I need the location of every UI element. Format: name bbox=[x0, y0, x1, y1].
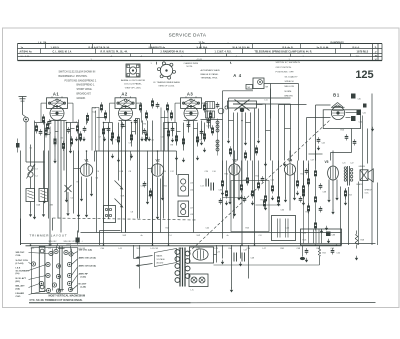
title SERVICE DATA bbox=[169, 33, 207, 38]
trimmer leader lines bbox=[29, 244, 78, 295]
svg-text:S.W: S.W bbox=[123, 235, 127, 237]
svg-text:15.2a: 15.2a bbox=[199, 41, 206, 44]
svg-text:L: L bbox=[375, 45, 377, 49]
svg-text:AERIAL & OSCILLATOR: AERIAL & OSCILLATOR bbox=[121, 79, 145, 82]
stage A4 label bbox=[233, 73, 242, 78]
mains adjust panel bbox=[155, 249, 177, 267]
svg-text:R10: R10 bbox=[225, 174, 228, 176]
IF stage A1 (tube + coil box) bbox=[41, 92, 73, 123]
svg-text:R28: R28 bbox=[361, 240, 364, 242]
svg-text:S.OSC COIL: S.OSC COIL bbox=[16, 260, 29, 262]
svg-text:L41.C45: L41.C45 bbox=[151, 248, 159, 250]
table right col dividers bbox=[18, 44, 383, 61]
V2 wires bbox=[148, 151, 163, 246]
left col grounds bbox=[29, 212, 45, 217]
bus labels bbox=[31, 248, 336, 250]
svg-text:BC AVT: BC AVT bbox=[79, 283, 88, 286]
link A2-A3 bbox=[161, 108, 169, 151]
aerial symbol bbox=[19, 97, 27, 104]
mains drop wires bbox=[134, 245, 140, 289]
V1 wires bbox=[74, 151, 92, 233]
svg-text:SW OSC CPS: SW OSC CPS bbox=[64, 241, 77, 243]
stage A2 ground arrows bbox=[111, 137, 151, 163]
stage A3 lower components bbox=[166, 102, 219, 146]
svg-text:C8: C8 bbox=[131, 212, 133, 214]
svg-text:C2: C2 bbox=[71, 198, 73, 200]
note switch S7 and S5 duality bbox=[276, 62, 301, 98]
V2 left cap C16 bbox=[143, 181, 152, 198]
coil lug panel symbol bbox=[126, 64, 140, 77]
svg-text:SHORT WAVE.: SHORT WAVE. bbox=[77, 88, 93, 91]
stage A1 drop wires bbox=[35, 118, 87, 246]
trimmer right labels bbox=[79, 249, 97, 289]
svg-text:R12: R12 bbox=[256, 176, 259, 178]
box right of V4 bbox=[272, 216, 296, 241]
A4 loop return tops bbox=[233, 103, 307, 106]
svg-text:L22: L22 bbox=[351, 163, 354, 165]
cap C49 labels bbox=[191, 250, 254, 292]
svg-text:POSITIONS : OFF.: POSITIONS : OFF. bbox=[276, 72, 295, 74]
electrolytic C55 bbox=[76, 231, 84, 245]
IF transformer box L17 L18 bbox=[178, 201, 193, 217]
svg-text:C38: C38 bbox=[323, 192, 326, 194]
chassis arrows row A1 bbox=[75, 137, 113, 142]
link A3-A4 bbox=[201, 119, 223, 121]
svg-text:R11: R11 bbox=[164, 186, 167, 188]
V3 V4 area top wires bbox=[223, 161, 309, 195]
svg-text:C20: C20 bbox=[205, 171, 208, 173]
svg-text:AER3 CHG (E14): AER3 CHG (E14) bbox=[79, 265, 97, 268]
svg-text:TELE/GRAM M. SPRING BASE CLAMP: TELE/GRAM M. SPRING BASE CLAMP 15/R.W. 4… bbox=[255, 51, 313, 54]
coupling labels row bbox=[97, 170, 216, 173]
svg-text:TRIMMER LAYOUT: TRIMMER LAYOUT bbox=[30, 234, 68, 238]
bottom caption 2 bbox=[30, 299, 83, 302]
cap C1 left margin bbox=[16, 139, 20, 153]
A4 zone blobs bbox=[229, 145, 258, 160]
svg-text:I.F. TRANSFORMER BASE: I.F. TRANSFORMER BASE bbox=[153, 81, 180, 84]
svg-text:(L7+L8): (L7+L8) bbox=[16, 263, 24, 265]
svg-text:SW OSC: SW OSC bbox=[49, 241, 58, 243]
A4 heptode structure bbox=[228, 100, 263, 113]
svg-text:C41: C41 bbox=[363, 113, 366, 115]
svg-text:C40: C40 bbox=[358, 99, 361, 101]
rectifier wires bbox=[214, 245, 249, 289]
table rule 4 bbox=[18, 56, 383, 58]
switch box S2 bbox=[104, 206, 116, 223]
svg-text:SPEECH: SPEECH bbox=[285, 81, 294, 83]
svg-text:MELLOW: MELLOW bbox=[285, 86, 295, 88]
V3 wires bbox=[230, 151, 239, 213]
svg-text:C4: C4 bbox=[75, 122, 77, 124]
svg-text:R23: R23 bbox=[246, 228, 249, 230]
svg-text:TERMINAL PINS.: TERMINAL PINS. bbox=[201, 77, 219, 80]
grid box top V1 V2 bbox=[95, 151, 177, 175]
table row3 text bbox=[21, 55, 360, 58]
svg-text:C6: C6 bbox=[97, 171, 99, 173]
right resistor stack bbox=[314, 168, 322, 230]
svg-text:S.W.: S.W. bbox=[121, 196, 125, 198]
svg-text:A1: A1 bbox=[53, 92, 60, 97]
power resistor R26 bbox=[318, 246, 326, 265]
svg-text:R2: R2 bbox=[61, 138, 63, 140]
svg-text:L18: L18 bbox=[190, 214, 193, 216]
svg-text:A/T/544. 4a: A/T/544. 4a bbox=[20, 51, 33, 54]
svg-text:BEL AVT: BEL AVT bbox=[16, 285, 26, 288]
svg-text:COIL LUG PANEL.: COIL LUG PANEL. bbox=[124, 83, 143, 86]
svg-text:R6: R6 bbox=[144, 124, 146, 126]
IF transformer box L13 L14 bbox=[178, 175, 193, 197]
rectifier grounds bbox=[221, 260, 242, 293]
aerial down wire bbox=[21, 122, 45, 245]
svg-text:S. 44. W.A.: S. 44. W.A. bbox=[197, 46, 208, 49]
B1 right rail bbox=[363, 94, 373, 246]
loop band arrows bbox=[264, 162, 286, 207]
svg-text:SWITCH S7, SHOWN IN: SWITCH S7, SHOWN IN bbox=[276, 62, 301, 64]
svg-text:R9: R9 bbox=[200, 140, 202, 142]
bus link verticals bbox=[21, 218, 53, 245]
svg-text:L12: L12 bbox=[171, 171, 174, 173]
svg-text:A3: A3 bbox=[187, 92, 194, 97]
B1 tube bbox=[331, 106, 344, 119]
V1 trimmer X bbox=[65, 185, 72, 216]
output pentode V5 bbox=[325, 160, 339, 180]
svg-text:COIL: COIL bbox=[365, 192, 369, 194]
svg-text:A2: A2 bbox=[121, 92, 128, 97]
svg-text:(2x): (2x) bbox=[16, 273, 20, 275]
svg-text:L11: L11 bbox=[265, 100, 268, 102]
svg-text:SERVICE DATA: SERVICE DATA bbox=[169, 33, 207, 38]
V3 V4 ground arrows bbox=[221, 191, 305, 211]
svg-text:(L6): (L6) bbox=[49, 244, 53, 246]
svg-text:R18: R18 bbox=[261, 200, 264, 202]
pentode V3 bbox=[229, 158, 240, 175]
V5 wires bbox=[329, 151, 337, 211]
svg-text:C9: C9 bbox=[129, 143, 131, 145]
svg-text:C.4: C.4 bbox=[169, 235, 172, 237]
dashed chassis line horizontal bbox=[53, 218, 197, 220]
svg-text:L23: L23 bbox=[217, 252, 220, 254]
V3 V4 area components bbox=[219, 168, 310, 204]
IF transformer base symbol bbox=[158, 62, 176, 79]
coil L3 L4 bbox=[27, 164, 38, 179]
table row1 text bbox=[21, 46, 360, 49]
B1 coil roof bbox=[331, 103, 345, 108]
svg-text:C17: C17 bbox=[207, 126, 210, 128]
svg-text:SW OSC (L4): SW OSC (L4) bbox=[79, 249, 93, 252]
table bottom rule bbox=[18, 60, 383, 62]
svg-text:3a. R. H. 44.: 3a. R. H. 44. bbox=[317, 46, 330, 49]
svg-text:C30: C30 bbox=[359, 122, 362, 124]
svg-text:BANDPASS: BANDPASS bbox=[331, 41, 345, 44]
svg-text:C8: C8 bbox=[129, 171, 131, 173]
stage A1 tie wires bbox=[35, 121, 79, 135]
stage A3 ground arrows bbox=[171, 138, 206, 163]
svg-text:L9: L9 bbox=[215, 108, 217, 110]
svg-text:C16: C16 bbox=[141, 186, 144, 188]
svg-text:125: 125 bbox=[355, 69, 373, 81]
speaker labels bbox=[357, 166, 373, 194]
secondary bus bbox=[81, 232, 342, 234]
svg-text:L21: L21 bbox=[343, 163, 346, 165]
svg-text:C15: C15 bbox=[187, 122, 190, 124]
right col extra wires bbox=[302, 161, 328, 244]
V3 grounds bbox=[228, 196, 240, 217]
A4 feedback loop inner bbox=[233, 104, 291, 161]
svg-text:SWITCH S1,S2,S3,&S4 SHOWN IN: SWITCH S1,S2,S3,&S4 SHOWN IN bbox=[59, 72, 96, 74]
svg-text:C. L. 650S. M. 1.4.: C. L. 650S. M. 1.4. bbox=[53, 51, 73, 54]
stage A3 drop wires bbox=[161, 119, 211, 246]
svg-text:C7: C7 bbox=[99, 137, 101, 139]
table col letters bbox=[375, 45, 377, 62]
svg-text:R7: R7 bbox=[149, 196, 151, 198]
table rule 3 bbox=[18, 53, 383, 55]
svg-text:L17: L17 bbox=[190, 208, 193, 210]
triode V1 bbox=[80, 158, 92, 176]
svg-text:C44: C44 bbox=[322, 143, 325, 145]
table row4 text bbox=[91, 59, 291, 65]
svg-text:VOLTAGE: VOLTAGE bbox=[157, 258, 166, 261]
IF stage A3 (tube + coil box) bbox=[175, 92, 207, 123]
svg-text:R.H. 4.: R.H. 4. bbox=[353, 46, 360, 49]
dial lamps bbox=[189, 274, 208, 287]
svg-text:B1: B1 bbox=[333, 93, 340, 98]
bottom caption 1 bbox=[49, 294, 86, 297]
V1 grounds bbox=[80, 192, 93, 218]
svg-text:CTC- SC.4D. TRIMMER CUT IN MOV: CTC- SC.4D. TRIMMER CUT IN MOVE DNGN. bbox=[30, 299, 83, 302]
right area res R24 bbox=[344, 188, 352, 205]
svg-text:BROADCAST.: BROADCAST. bbox=[77, 93, 92, 96]
svg-text:C3: C3 bbox=[49, 133, 51, 135]
svg-text:15/78 R/LS: 15/78 R/LS bbox=[357, 52, 369, 54]
svg-text:SW OSC: SW OSC bbox=[16, 252, 25, 254]
tick below table bbox=[157, 62, 231, 65]
svg-text:1. C.W.T. 4. R.S.: 1. C.W.T. 4. R.S. bbox=[215, 51, 232, 54]
svg-text:S5. DUALITY: S5. DUALITY bbox=[285, 75, 299, 78]
svg-text:LW AER: LW AER bbox=[16, 292, 25, 295]
svg-text:AER3 RF: AER3 RF bbox=[79, 273, 89, 276]
svg-text:OFF POSITION.: OFF POSITION. bbox=[276, 67, 292, 69]
power box bbox=[301, 229, 342, 245]
switch wiper arrows bbox=[115, 181, 124, 208]
link A1-A2 bbox=[92, 108, 105, 151]
svg-text:L14: L14 bbox=[190, 190, 193, 192]
svg-text:COIL: COIL bbox=[16, 255, 22, 257]
stage A2 drop wires bbox=[104, 119, 153, 246]
svg-text:BRIGHT.: BRIGHT. bbox=[285, 96, 294, 98]
table row2 text bbox=[20, 51, 369, 54]
below-bus return wire bbox=[214, 264, 320, 266]
svg-text:C33: C33 bbox=[219, 190, 222, 192]
cap stack right of V2 bbox=[206, 179, 214, 191]
svg-text:C50: C50 bbox=[337, 253, 340, 255]
trimmer left rail bbox=[39, 247, 45, 292]
svg-text:C44: C44 bbox=[206, 228, 209, 230]
svg-text:MOST VERTICAL MAGNESIUM: MOST VERTICAL MAGNESIUM bbox=[49, 294, 86, 297]
stage A2 lower components bbox=[100, 98, 159, 144]
coil L9 L10 between A3 A4 bbox=[206, 102, 215, 119]
svg-text:(L24): (L24) bbox=[81, 286, 86, 289]
right area wires bbox=[316, 151, 378, 246]
svg-text:C6: C6 bbox=[96, 178, 98, 180]
mains transformer windings bbox=[175, 250, 190, 283]
svg-text:MAINS: MAINS bbox=[157, 255, 163, 258]
svg-text:GRAMO.: GRAMO. bbox=[77, 97, 87, 100]
schematic corner box bbox=[100, 231, 121, 246]
svg-text:ALTERNATE WAVE: ALTERNATE WAVE bbox=[201, 69, 221, 72]
junction ties bbox=[45, 121, 291, 132]
svg-text:C1: C1 bbox=[30, 148, 32, 150]
svg-text:C47: C47 bbox=[244, 250, 247, 252]
svg-text:BANDPRESS 2. POSITION.: BANDPRESS 2. POSITION. bbox=[59, 75, 88, 78]
trimmer outer box bbox=[32, 248, 78, 294]
svg-text:AER3 OSC (S14): AER3 OSC (S14) bbox=[79, 257, 96, 260]
svg-text:(B1): (B1) bbox=[16, 281, 21, 283]
svg-text:(S4): (S4) bbox=[16, 287, 20, 290]
svg-text:L16: L16 bbox=[213, 171, 216, 173]
switch area wires bbox=[97, 151, 126, 233]
svg-text:R1: R1 bbox=[77, 182, 79, 184]
svg-text:C.8: C.8 bbox=[259, 235, 262, 237]
V4 wires bbox=[286, 151, 295, 211]
B1 right components bbox=[345, 94, 367, 146]
svg-text:4.5 Ω: 4.5 Ω bbox=[197, 59, 203, 61]
svg-text:2. BAKELITE 4a: 2. BAKELITE 4a bbox=[149, 46, 166, 49]
trimmer top labels bbox=[49, 241, 77, 246]
IF transformer caption bbox=[153, 81, 180, 88]
stage A1 lower components bbox=[35, 113, 89, 151]
svg-text:R.S. 4a. R.: R.S. 4a. R. bbox=[283, 46, 294, 49]
svg-text:NOTE:: NOTE: bbox=[187, 66, 194, 68]
A4 drop wires bbox=[229, 109, 259, 246]
V2 grounds bbox=[146, 196, 164, 220]
note chassis wiring bbox=[184, 62, 199, 68]
stage A1 ground arrows bbox=[33, 149, 80, 220]
svg-text:S.W: S.W bbox=[197, 235, 201, 237]
below 232 labels bbox=[123, 235, 262, 237]
svg-text:S.R.: S.R. bbox=[31, 248, 35, 250]
svg-text:CHASSIS WIRE: CHASSIS WIRE bbox=[184, 62, 199, 65]
aerial jack bbox=[23, 104, 29, 122]
trimmer mid rail bbox=[58, 246, 64, 292]
svg-text:R.05: R.05 bbox=[303, 240, 307, 242]
oscillator box B7 bbox=[246, 78, 269, 89]
svg-text:RANGE IF PANEL: RANGE IF PANEL bbox=[201, 73, 220, 76]
svg-text:S.L. 4.44: S.L. 4.44 bbox=[21, 56, 31, 58]
resistor box L8A bbox=[26, 189, 35, 202]
coil lug panel caption bbox=[121, 79, 145, 89]
power cap C48A bbox=[326, 232, 336, 244]
svg-text:A 4: A 4 bbox=[233, 73, 242, 78]
trimmer screws bbox=[31, 249, 73, 293]
trimmer left labels bbox=[16, 252, 30, 298]
table header text bbox=[39, 41, 345, 44]
svg-text:V: V bbox=[375, 58, 377, 62]
svg-text:R. H. A.W.7.B. M. 34.: R. H. A.W.7.B. M. 34. bbox=[89, 46, 110, 49]
svg-text:R4: R4 bbox=[116, 140, 118, 142]
pentode V4 bbox=[284, 158, 295, 175]
smoothing caps C48 bbox=[234, 253, 245, 262]
svg-text:L4: L4 bbox=[36, 176, 38, 178]
power ground blob bbox=[300, 246, 305, 260]
V5 grounds bbox=[327, 196, 338, 215]
svg-text:1. 605 S.: 1. 605 S. bbox=[51, 47, 60, 49]
stage B1 label bbox=[333, 93, 340, 98]
svg-text:R20: R20 bbox=[306, 212, 309, 214]
svg-text:C24: C24 bbox=[271, 180, 274, 182]
svg-text:W. A. 14. R.S. 44.: W. A. 14. R.S. 44. bbox=[233, 46, 251, 49]
left col wires bbox=[31, 145, 49, 219]
svg-text:GREEN: GREEN bbox=[359, 166, 366, 168]
svg-text:L3: L3 bbox=[36, 169, 38, 171]
svg-text:R. R. W.R.T.S. PL. SL. 44.: R. R. W.R.T.S. PL. SL. 44. bbox=[101, 51, 128, 54]
svg-text:M. W. AVT: M. W. AVT bbox=[16, 277, 27, 280]
svg-text:R8: R8 bbox=[171, 145, 173, 147]
svg-text:S.W.: S.W. bbox=[137, 248, 142, 250]
trimmer layout title bbox=[30, 234, 68, 238]
svg-text:(C23): (C23) bbox=[81, 277, 87, 279]
pentode V2 bbox=[151, 158, 163, 176]
A4 osc coil rings bbox=[218, 106, 228, 114]
note switch positions bbox=[59, 72, 98, 100]
svg-text:+5W: +5W bbox=[303, 233, 307, 235]
svg-text:C11: C11 bbox=[151, 140, 154, 142]
svg-text:R22: R22 bbox=[166, 228, 169, 230]
B1 outer box bbox=[316, 105, 331, 161]
svg-text:SPEECH: SPEECH bbox=[365, 190, 373, 192]
A4 ground arrows bbox=[227, 139, 260, 146]
svg-text:L13: L13 bbox=[190, 183, 193, 185]
svg-text:POSITIONS: BANDSPREAD 2.: POSITIONS: BANDSPREAD 2. bbox=[65, 79, 98, 82]
A4 loop return verticals bbox=[266, 84, 307, 199]
svg-text:R16: R16 bbox=[341, 130, 344, 132]
power caps bbox=[305, 248, 340, 262]
svg-text:L13: L13 bbox=[201, 186, 204, 188]
output transformer L21 L22 bbox=[343, 163, 354, 186]
svg-text:BLACK: BLACK bbox=[357, 183, 364, 186]
svg-text:BANDSPREAD 1.: BANDSPREAD 1. bbox=[77, 84, 96, 87]
mains leads bbox=[136, 256, 153, 267]
V4 grounds bbox=[284, 196, 296, 203]
resistor box L8B bbox=[39, 189, 48, 202]
svg-text:VIEW OF LUGS.: VIEW OF LUGS. bbox=[158, 86, 175, 88]
svg-text:C14: C14 bbox=[163, 171, 166, 173]
svg-text:L.S.: L.S. bbox=[191, 290, 195, 292]
main HT bus bbox=[21, 244, 376, 246]
B1 tie bbox=[307, 113, 357, 118]
mains transformer core bbox=[180, 248, 185, 287]
svg-text:NORM.: NORM. bbox=[285, 91, 293, 93]
A4 feedback loop mid bbox=[229, 84, 299, 161]
svg-text:I.S.S: I.S.S bbox=[16, 268, 21, 270]
page number 125 bbox=[355, 69, 373, 81]
B1 cap C44 bbox=[317, 137, 325, 150]
svg-text:C36: C36 bbox=[281, 210, 284, 212]
B1 inner box bbox=[323, 110, 360, 129]
svg-text:C21: C21 bbox=[244, 180, 247, 182]
table top rule bbox=[18, 43, 383, 45]
stage A2 tie wires bbox=[104, 119, 140, 123]
svg-text:V5: V5 bbox=[325, 160, 329, 164]
table cell dividers bbox=[41, 44, 351, 57]
bottom underline bbox=[29, 302, 376, 304]
note alternate wave bbox=[201, 69, 221, 80]
rectifier V6 bbox=[190, 247, 214, 263]
A4 feedback loop outer bbox=[223, 84, 299, 239]
svg-text:R14: R14 bbox=[301, 174, 304, 176]
svg-text:C46: C46 bbox=[286, 228, 289, 230]
V4 area tie bbox=[223, 198, 281, 209]
svg-text:C48: C48 bbox=[251, 258, 254, 260]
